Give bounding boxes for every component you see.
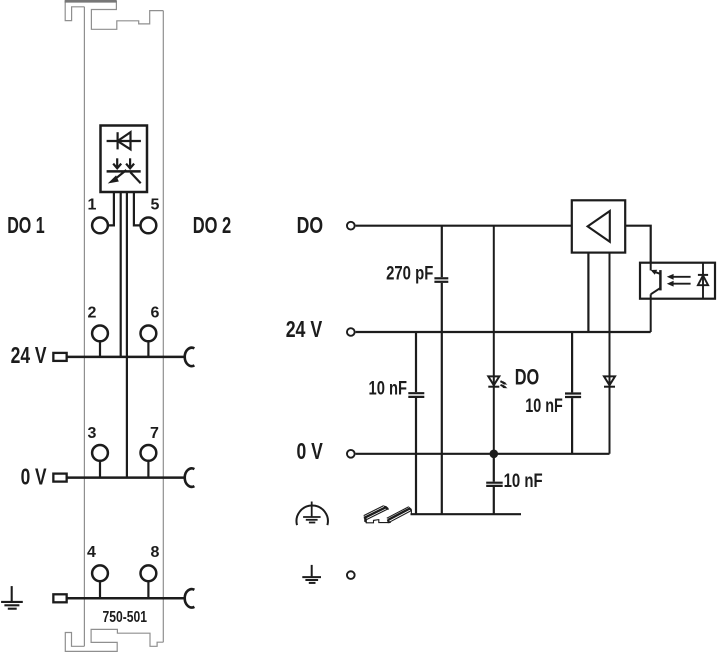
capacitor C4 10nF (24V to 0V)	[565, 332, 581, 454]
svg-text:7: 7	[150, 425, 159, 442]
junction dot 0V	[490, 450, 499, 459]
0V rail	[67, 476, 185, 479]
node DO terminal	[347, 222, 355, 230]
svg-text:0 V: 0 V	[297, 438, 324, 464]
svg-text:24 V: 24 V	[286, 316, 323, 342]
diode D3 in optocoupler	[698, 263, 708, 299]
op-amp buffer U2	[572, 200, 625, 252]
terminal 1	[92, 218, 108, 234]
ground rail	[411, 513, 522, 515]
svg-text:10 nF: 10 nF	[369, 377, 408, 399]
capacitor C3 10nF (below 0V)	[486, 454, 503, 514]
wire: stem pin6	[147, 342, 149, 357]
clamp contact 24V	[185, 348, 195, 366]
svg-text:1: 1	[88, 197, 97, 214]
LED block U1 (diode + LED indicator box)	[101, 126, 148, 193]
wire: buffer left pin to 24V	[587, 253, 589, 332]
svg-text:DO: DO	[515, 364, 540, 389]
svg-text:5: 5	[151, 197, 160, 214]
clamp contact earth	[185, 589, 195, 607]
capacitor C2 10nF	[408, 332, 424, 514]
svg-text:8: 8	[151, 544, 160, 561]
svg-text:DO 1: DO 1	[7, 212, 45, 238]
earth symbol lower right	[302, 565, 321, 583]
svg-text:4: 4	[87, 544, 96, 561]
wire: internal bus to 24V rail	[120, 192, 122, 357]
LED V2 (in LED block, arrows symbol)	[107, 158, 141, 183]
wire: pin 5 lead	[134, 192, 140, 225]
terminal 7	[141, 445, 157, 461]
node 24V terminal	[347, 328, 355, 336]
module outline 750-501 (gray profile)	[65, 1, 163, 651]
24V rail	[67, 356, 185, 359]
wire: stem pin3	[99, 462, 101, 478]
svg-text:DO 2: DO 2	[193, 212, 232, 238]
svg-text:3: 3	[88, 425, 97, 442]
wire: module bottom profile	[65, 629, 163, 651]
wire: module right edge	[162, 11, 164, 643]
terminal 2	[92, 326, 108, 342]
wire: stem pin2	[99, 342, 101, 357]
earth rail	[67, 597, 185, 600]
terminal 3	[92, 445, 108, 461]
terminal 6	[141, 326, 157, 342]
wire: module top profile	[65, 1, 163, 29]
wire: module left edge	[83, 7, 85, 647]
wire: 0V line	[356, 453, 610, 455]
svg-text:0 V: 0 V	[21, 463, 47, 489]
terminal square 24V	[53, 353, 66, 361]
earth symbol with arc (functional earth)	[297, 502, 328, 526]
clamp contact 0V	[185, 468, 195, 486]
terminal 5	[141, 218, 157, 234]
DIN rail symbol	[364, 506, 412, 524]
diode V1 (in LED block, pointing left)	[107, 132, 141, 149]
svg-text:2: 2	[88, 304, 97, 321]
wire: 24V line	[356, 331, 651, 333]
wire: internal bus to 0V rail	[126, 192, 128, 478]
wire: stem pin4	[99, 582, 101, 598]
svg-text:270 pF: 270 pF	[386, 262, 433, 284]
wire: DO line	[356, 225, 572, 227]
terminal 4	[92, 565, 108, 581]
terminal square 0V	[53, 474, 66, 482]
ground symbol left	[1, 586, 23, 609]
terminal square earth	[53, 594, 66, 602]
LED D1 DO indicator	[488, 226, 505, 454]
wire: buffer output to optocoupler	[625, 226, 651, 263]
svg-text:6: 6	[151, 304, 160, 321]
svg-text:10 nF: 10 nF	[504, 470, 543, 492]
svg-text:24 V: 24 V	[11, 342, 47, 368]
svg-text:750-501: 750-501	[103, 609, 148, 626]
wire: pin 1 lead	[109, 192, 114, 225]
node 0V terminal	[347, 450, 355, 458]
svg-text:DO: DO	[297, 212, 324, 238]
light arrows in optocoupler	[673, 276, 691, 278]
capacitor C1 270pF	[434, 226, 448, 515]
optocoupler U3 box	[640, 263, 715, 299]
wire: stem pin7	[147, 462, 149, 478]
terminal 8	[141, 565, 157, 581]
svg-text:10 nF: 10 nF	[525, 395, 563, 417]
diode D2 (24V to 0V)	[604, 253, 615, 454]
node earth terminal	[347, 571, 355, 579]
module top tab dark bar	[65, 0, 117, 3]
phototransistor Q1	[651, 263, 661, 332]
wire: stem pin8	[147, 582, 149, 598]
